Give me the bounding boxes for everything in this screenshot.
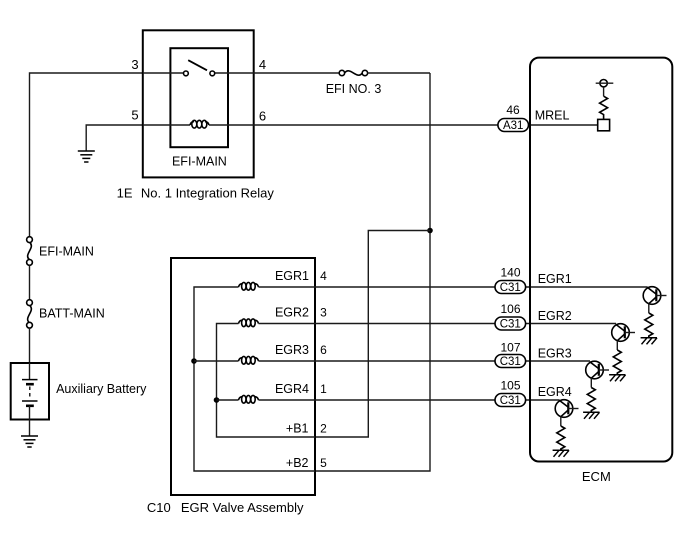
relay U1 outer box [143,30,254,177]
svg-text:C31: C31 [500,319,521,331]
svg-text:140: 140 [500,265,520,279]
node: bus2 EGR4 junction [214,397,220,403]
svg-text:C10: C10 [147,500,171,515]
wire: EGR2 row to ECM [259,323,617,325]
svg-text:107: 107 [500,341,520,355]
svg-text:+B1: +B1 [286,421,309,435]
svg-text:EGR1: EGR1 [275,269,309,283]
connector C31 (EGR3) pin 107 [495,355,526,369]
svg-text:3: 3 [131,57,138,72]
svg-text:ECM: ECM [582,469,611,484]
svg-text:EFI NO. 3: EFI NO. 3 [326,82,382,96]
ground (EGR4, chassis) [553,450,569,457]
svg-text:MREL: MREL [535,109,570,123]
svg-text:EFI-MAIN: EFI-MAIN [39,244,94,258]
fuse BATT-MAIN [27,300,33,328]
resistor R4 (EGR3 emitter) [587,388,595,413]
svg-text:BATT-MAIN: BATT-MAIN [39,307,105,321]
wire: internal bus 2 (+B1 to EGR2/EGR4) [217,324,316,438]
node: bus1 EGR3 junction [191,358,197,364]
resistor R5 (EGR4 emitter) [557,426,565,451]
wire: pin 4 row from switch to fuse EFI NO. 3 [215,72,340,74]
connector C31 (EGR4) pin 105 [495,394,526,408]
resistor R2 (EGR1 emitter) [645,313,653,338]
fuse EFI NO. 3 [339,70,367,75]
wire: EGR1 row to ECM [259,286,648,288]
wire: EGR4 row to ECM [259,399,560,401]
transistor Q3 (EGR3) [586,361,609,387]
power symbol (B+) above MREL resistor [596,80,614,97]
svg-text:EGR4: EGR4 [538,385,572,399]
ECM box [530,58,672,462]
coil L3 EGR2 [239,319,259,327]
relay coil L1 [190,120,209,128]
relay inner box [170,48,228,147]
svg-text:EFI-MAIN: EFI-MAIN [172,155,227,169]
connector C31 (EGR2) pin 106 [495,317,526,331]
wire: battery to ground [29,420,31,437]
svg-text:EGR2: EGR2 [538,309,572,323]
svg-text:+B2: +B2 [286,456,309,470]
wire: EGR3 row from bus1 [194,360,239,362]
svg-text:EGR4: EGR4 [275,382,309,396]
terminal square (MREL) [598,119,610,130]
svg-text:EGR3: EGR3 [275,343,309,357]
ground (relay pin 5, earth symbol) [78,151,95,162]
svg-text:105: 105 [500,379,520,393]
switch S1 (relay contacts) [184,60,215,76]
wire: battery rail top horizontal to relay pin 3 [30,73,144,237]
EGR valve assembly box [171,258,315,495]
wire: pin 6 row from coil to ECM MREL [209,124,598,126]
wire: pin 5 row to coil [143,124,190,126]
node: junction dot on feed [427,228,433,234]
ground (battery, earth symbol) [21,436,38,447]
svg-text:2: 2 [320,421,327,435]
transistor Q2 (EGR2) [612,324,635,350]
svg-text:4: 4 [259,57,266,72]
svg-text:A31: A31 [503,120,523,132]
transistor Q4 (EGR4) [555,400,578,426]
coil L2 EGR1 [239,282,259,290]
coil L5 EGR4 [239,395,259,403]
wire: pin 3 row through relay [143,72,184,74]
svg-text:3: 3 [320,306,327,320]
connector C31 (EGR1) pin 140 [495,281,526,295]
svg-text:6: 6 [320,343,327,357]
svg-text:No. 1 Integration Relay: No. 1 Integration Relay [141,186,274,201]
svg-text:6: 6 [259,108,266,123]
connector A31 (MREL) [498,119,529,133]
ground (EGR3, chassis) [583,412,599,419]
svg-text:1: 1 [320,382,327,396]
svg-text:C31: C31 [500,356,521,368]
wire: vertical feed x=430 down to +B2 row [315,73,430,471]
svg-text:EGR2: EGR2 [275,306,309,320]
svg-text:C31: C31 [500,282,521,294]
wire: between fuses [29,265,31,300]
fuse EFI-MAIN [27,237,33,266]
resistor R1 (MREL pull) [600,96,608,119]
svg-text:106: 106 [500,302,520,316]
wire: fuse EFI NO. 3 to vertical feed [368,72,430,74]
ground (EGR1, chassis) [641,338,657,345]
transistor Q1 (EGR1) [643,287,666,313]
wire: internal bus 1 (+B2 to EGR1/EGR3) [194,287,315,471]
svg-text:EGR1: EGR1 [538,272,572,286]
svg-text:1E: 1E [117,186,133,201]
wire: EGR4 row from bus2 [217,399,239,401]
svg-text:C31: C31 [500,395,521,407]
svg-text:4: 4 [320,269,327,283]
wire: EGR3 row to ECM [259,360,591,362]
ground (EGR2, chassis) [609,375,625,382]
svg-text:5: 5 [131,108,138,123]
wire: fuse to battery box [29,328,31,363]
battery B1 (auxiliary battery cells) [22,363,38,420]
svg-text:46: 46 [506,103,520,117]
resistor R3 (EGR2 emitter) [613,350,621,375]
svg-text:5: 5 [320,456,327,470]
battery box [11,363,49,420]
coil L4 EGR3 [239,356,259,364]
svg-text:EGR3: EGR3 [538,347,572,361]
svg-text:Auxiliary Battery: Auxiliary Battery [56,382,147,396]
svg-text:EGR Valve Assembly: EGR Valve Assembly [181,500,304,515]
wire: branch to +B1 row [315,231,430,438]
wire: relay pin 5 to ground [86,125,143,151]
